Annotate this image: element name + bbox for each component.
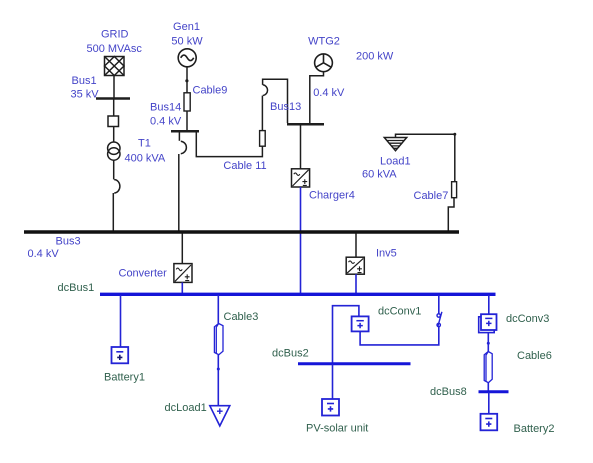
svg-text:60 kVA: 60 kVA [362, 168, 397, 180]
wire Bus3 to Converter [181, 234, 183, 264]
wire WTG2 to Bus13 [310, 72, 324, 123]
svg-text:dcConv1: dcConv1 [378, 306, 421, 318]
svg-text:Battery1: Battery1 [104, 372, 145, 384]
junction node above Cable6 [487, 342, 490, 345]
inverter Inv5 [346, 257, 364, 274]
wire Bus14 to feeder switch [178, 131, 180, 141]
wire dcBus1 to Cable3 [217, 295, 219, 324]
svg-text:dcConv3: dcConv3 [506, 313, 549, 325]
svg-text:dcBus8: dcBus8 [430, 386, 467, 398]
load dcLoad1 [210, 406, 230, 426]
battery Battery1 [112, 347, 129, 363]
generator Gen1 [178, 49, 196, 67]
svg-text:WTG2: WTG2 [308, 35, 340, 47]
wire Cable6 to dcBus8 [487, 383, 489, 392]
wire dcBus8 to Battery2 [488, 392, 490, 414]
svg-text:Bus3: Bus3 [56, 236, 81, 248]
svg-text:T1: T1 [138, 138, 151, 150]
svg-text:35 kV: 35 kV [71, 89, 100, 101]
svg-text:dcLoad1: dcLoad1 [165, 402, 207, 414]
bus dcBus1 [100, 293, 496, 296]
dc converter dcConv1 [352, 316, 369, 331]
svg-text:Cable 11: Cable 11 [223, 160, 266, 172]
external grid GRID symbol [105, 57, 125, 76]
junction node below Gen1 [185, 79, 188, 82]
svg-text:PV-solar unit: PV-solar unit [306, 423, 368, 435]
svg-text:400 kVA: 400 kVA [125, 153, 166, 165]
bus dcBus8 [479, 390, 509, 393]
switch on Cable 11 branch [263, 85, 268, 96]
svg-text:Converter: Converter [119, 268, 168, 280]
wire switch to Bus13 [263, 79, 288, 123]
cable Cable 11 [260, 131, 266, 147]
svg-text:Charger4: Charger4 [309, 190, 355, 202]
junction node at Load1 corner [453, 133, 456, 136]
dc converter dcConv3 [479, 314, 497, 332]
wire dcConv3 to Cable6 [487, 333, 489, 352]
wire dcBus2 to PV [332, 364, 334, 399]
svg-text:dcBus1: dcBus1 [58, 282, 95, 294]
cable Cable3 [214, 324, 223, 355]
svg-text:Cable9: Cable9 [193, 85, 228, 97]
wire T1 to switch [113, 160, 115, 179]
bus dcBus2 [298, 362, 411, 365]
wire Converter to dcBus1 [181, 282, 183, 293]
wire Gen1 to Cable9 [186, 67, 188, 93]
wire dcBus1 to Battery1 [120, 295, 122, 347]
cable Cable9 [184, 93, 190, 111]
wire switch to Bus3 [178, 154, 180, 231]
breaker square [108, 116, 119, 127]
switch on GRID feeder [114, 180, 120, 193]
wire Bus13 to Charger4 [300, 126, 302, 169]
bus Bus1 [96, 97, 130, 100]
converter Charger4 [292, 169, 310, 187]
wire Bus3 to Inv5 [355, 234, 357, 258]
wire Cable 11 to switch [261, 96, 263, 131]
wire GRID to Bus1 [113, 76, 115, 99]
wind turbine WTG2 [315, 54, 333, 72]
wire breaker to T1 [113, 127, 115, 143]
svg-text:dcBus2: dcBus2 [272, 348, 309, 360]
svg-text:Gen1: Gen1 [173, 21, 200, 33]
svg-text:Cable7: Cable7 [414, 190, 449, 202]
svg-text:Cable3: Cable3 [224, 311, 259, 323]
transformer T1 [108, 142, 120, 160]
wire Load1 to Cable7 [396, 134, 455, 181]
wire dcConv1 loop from dcBus2 [333, 306, 359, 363]
svg-text:Battery2: Battery2 [514, 423, 555, 435]
svg-text:50 kW: 50 kW [171, 36, 203, 48]
svg-text:Bus14: Bus14 [150, 102, 181, 114]
bus Bus3 [24, 230, 459, 233]
PV-solar unit [322, 399, 339, 416]
svg-text:Bus1: Bus1 [72, 75, 97, 87]
bus Bus14 [171, 130, 199, 133]
wire Inv5 to dcBus1 [355, 274, 357, 293]
switch on dcConv1 branch [437, 312, 442, 327]
svg-text:200 kW: 200 kW [356, 50, 394, 62]
wire switch to dcBus1 [438, 295, 440, 314]
svg-text:Load1: Load1 [380, 155, 411, 167]
wire Cable3 to dcLoad1 [217, 355, 219, 406]
svg-text:0.4 kV: 0.4 kV [150, 116, 182, 128]
load Load1 [384, 138, 406, 151]
svg-text:500 MVAsc: 500 MVAsc [86, 43, 142, 55]
wire Bus1 to breaker [113, 99, 115, 117]
svg-text:0.4 kV: 0.4 kV [313, 87, 345, 99]
cable Cable6 [484, 352, 492, 383]
junction node on dcLoad1 feeder [217, 368, 220, 371]
svg-text:0.4 kV: 0.4 kV [28, 248, 60, 260]
battery Battery2 [481, 414, 498, 431]
wire dcConv1 to switch [360, 327, 439, 345]
converter Converter [174, 264, 192, 283]
wire switch to Bus3 [112, 193, 114, 231]
wire Cable9 to Bus14 [186, 111, 188, 131]
switch on Bus14 feeder [181, 141, 187, 154]
cable Cable7 [452, 182, 457, 198]
wire Charger4 to dcBus1 [300, 187, 302, 293]
wire dcBus1 to dcConv3 [488, 295, 490, 314]
svg-text:Inv5: Inv5 [376, 248, 397, 260]
wire Bus14 to Cable 11 [196, 131, 262, 156]
svg-text:Bus13: Bus13 [270, 101, 301, 113]
svg-text:GRID: GRID [101, 29, 129, 41]
svg-text:Cable6: Cable6 [517, 350, 552, 362]
bus Bus13 [287, 123, 324, 126]
wire Cable7 to Bus3 [448, 198, 454, 231]
